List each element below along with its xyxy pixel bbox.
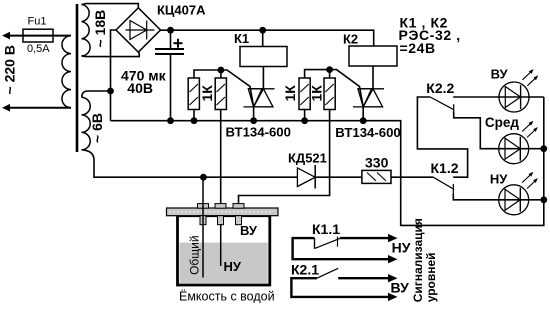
svg-text:ВТ134-600: ВТ134-600 [226, 125, 291, 140]
svg-text:ВУ: ВУ [391, 280, 410, 296]
svg-text:~ 18В: ~ 18В [92, 10, 108, 48]
svg-text:К2.1: К2.1 [291, 262, 319, 278]
svg-text:К1.2: К1.2 [431, 160, 459, 176]
svg-text:1К: 1К [309, 85, 325, 102]
svg-text:НУ: НУ [224, 259, 242, 274]
svg-text:~ 6В: ~ 6В [89, 113, 105, 143]
svg-text:уровней: уровней [424, 252, 438, 302]
svg-text:К2.2: К2.2 [426, 80, 454, 96]
svg-text:330: 330 [365, 155, 389, 171]
svg-text:=24В: =24В [400, 40, 436, 56]
svg-text:40В: 40В [127, 80, 153, 96]
svg-text:К2: К2 [343, 32, 358, 47]
svg-text:К1.1: К1.1 [312, 221, 340, 237]
svg-text:Ёмкость с водой: Ёмкость с водой [179, 289, 275, 303]
svg-text:1К: 1К [199, 85, 215, 102]
svg-text:ВУ: ВУ [491, 67, 509, 82]
svg-text:ВУ: ВУ [240, 223, 258, 238]
svg-text:НУ: НУ [392, 240, 411, 256]
svg-text:Fu1: Fu1 [28, 16, 47, 28]
svg-text:КЦ407А: КЦ407А [157, 3, 206, 18]
svg-text:ВТ134-600: ВТ134-600 [335, 125, 400, 140]
svg-text:Сигнализация: Сигнализация [411, 218, 425, 302]
svg-text:0,5A: 0,5A [27, 43, 50, 55]
svg-text:К1: К1 [234, 31, 249, 46]
svg-text:НУ: НУ [490, 171, 508, 186]
svg-text:КД521: КД521 [288, 150, 327, 165]
svg-text:~ 220 В: ~ 220 В [2, 45, 18, 94]
svg-text:Общий: Общий [188, 235, 202, 275]
svg-text:Сред: Сред [485, 115, 520, 130]
svg-text:1К: 1К [282, 85, 298, 102]
